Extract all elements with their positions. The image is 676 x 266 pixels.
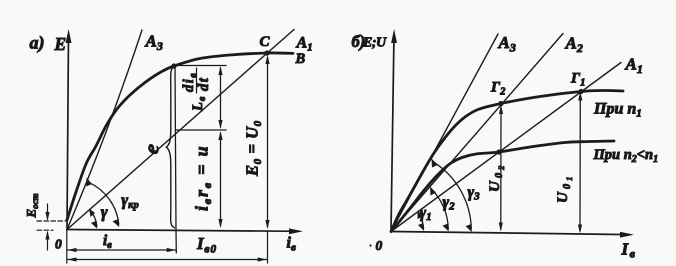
svg-text:U01: U01 (555, 174, 574, 203)
svg-text:При n1: При n1 (593, 101, 642, 120)
dimension i_v below axis (67, 249, 176, 251)
y-axis (391, 34, 394, 232)
svg-text:A1: A1 (625, 55, 643, 77)
svg-text:e: e (139, 142, 164, 156)
svg-text:Iв0: Iв0 (196, 234, 217, 256)
upper curve (Pri n1) (391, 90, 623, 231)
svg-text:Iв: Iв (621, 240, 637, 261)
svg-text:E: E (54, 34, 67, 54)
svg-text:γ1: γ1 (420, 205, 432, 224)
label U01 (rotated) (555, 174, 574, 203)
svg-text:γ2: γ2 (443, 194, 456, 213)
svg-text:iвrв = u: iвrв = u (192, 145, 215, 211)
extension below axis at x=267.5 (267, 231, 269, 263)
horizontal line at A1 crossing (176, 129, 226, 131)
svg-text:а): а) (30, 33, 45, 54)
svg-text:Γ2: Γ2 (490, 80, 506, 98)
line A3 (b) (391, 34, 498, 232)
line A1 (67, 30, 294, 230)
horizontal line from curve point (174, 65, 226, 67)
svg-text:iв: iв (103, 233, 112, 251)
x-axis i_v (67, 230, 298, 232)
label E_ost (rotated) (24, 193, 41, 218)
svg-text:Lв: Lв (190, 96, 208, 112)
angle arc gamma3 (434, 162, 472, 229)
label U02 (rotated) (487, 163, 506, 192)
y-axis E (67, 34, 69, 230)
line A3 (67, 30, 142, 230)
svg-text:A2: A2 (565, 34, 583, 56)
line A1 (b) (391, 63, 621, 232)
dimension I_v0 below axis (67, 259, 267, 261)
lower curve (Pri n2) (391, 141, 614, 232)
E_ost dimension arrows (47, 204, 49, 219)
small dot before 0 (369, 244, 371, 246)
dashed line at axis level left (37, 229, 53, 231)
E_ost dashed level line (37, 220, 67, 222)
y-axis extension below origin (66, 230, 68, 264)
svg-text:0: 0 (376, 238, 383, 253)
svg-text:U02: U02 (487, 163, 506, 192)
svg-text:A3: A3 (498, 33, 516, 55)
angle arc gamma1 (419, 213, 424, 229)
label Lv di_v/dt (rotated fraction) (181, 68, 212, 112)
point G2 (498, 101, 503, 106)
x-axis I_v (391, 232, 629, 235)
svg-text:γ3: γ3 (468, 184, 481, 203)
curve B (magnetization curve) (67, 53, 293, 220)
point C (264, 50, 269, 55)
svg-text:γ: γ (101, 203, 108, 222)
point G1 (578, 89, 583, 94)
dimension E0 = U0 (arrows) (267, 57, 269, 227)
dimension U01 (arrows) (579, 94, 581, 232)
svg-text:E0 = U0: E0 = U0 (243, 120, 265, 177)
svg-text:E;U: E;U (362, 36, 387, 51)
svg-text:dt: dt (196, 77, 212, 91)
svg-text:При n2<n1: При n2<n1 (593, 147, 659, 165)
dimension i_v r_v = u (arrows) (220, 133, 222, 226)
brace e (curly) (166, 67, 174, 228)
svg-text:Eост: Eост (24, 193, 41, 218)
svg-text:0: 0 (55, 237, 62, 252)
svg-text:A3: A3 (145, 32, 163, 54)
label e (rotated) (139, 142, 164, 156)
dimension Lv di/dt (arrows) (220, 68, 222, 127)
point on curve at operating point (171, 63, 176, 68)
svg-text:Γ1: Γ1 (570, 71, 585, 89)
svg-text:γкр: γкр (121, 191, 138, 212)
angle arc gamma2 (432, 189, 449, 229)
svg-text:B: B (295, 51, 306, 67)
line A2 (b) (391, 34, 563, 232)
vertical line at operating point x=176 (175, 66, 176, 253)
angle arc gamma_kr (89, 182, 119, 224)
dimension U02 (arrows) (500, 107, 502, 229)
point on lower curve at A1 (496, 149, 501, 154)
label i_v r_v = u (rotated) (192, 145, 215, 211)
angle arc gamma (91, 211, 97, 227)
svg-text:iв: iв (287, 235, 296, 254)
label E0 = U0 (rotated) (243, 120, 265, 177)
svg-text:C: C (260, 34, 271, 50)
